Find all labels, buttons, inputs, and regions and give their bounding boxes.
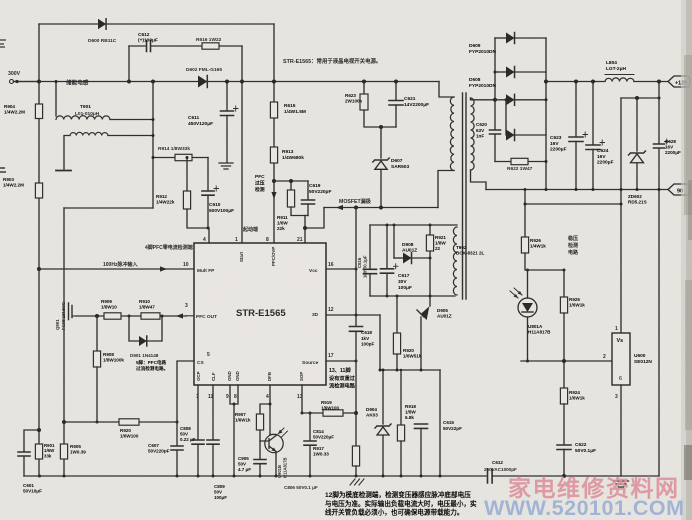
resistor R924 xyxy=(560,388,567,404)
junction x356/y413 xyxy=(354,411,358,415)
resistor R912 xyxy=(183,191,190,209)
junction Q901 source/y422 xyxy=(62,420,66,424)
diode D600 on top rail xyxy=(98,19,106,29)
wire x621 vertical to U600 xyxy=(620,98,622,333)
junction gate/R908 xyxy=(95,314,99,318)
wire C905 top stem xyxy=(259,441,261,459)
wire C616 top stem xyxy=(369,225,371,269)
wire C616 bottom stem xyxy=(369,274,371,296)
wire U901B collector link xyxy=(270,435,276,436)
junction R920b top xyxy=(396,295,399,298)
zener D904 AK03 xyxy=(375,424,391,428)
wire y157 R914 rail xyxy=(153,157,208,159)
junction y204/x525 xyxy=(524,203,527,206)
wire D607 top stem xyxy=(380,127,382,158)
junction OVP node xyxy=(272,179,276,183)
junction R925 top xyxy=(563,269,566,272)
resistor R914 1/8W33k xyxy=(175,154,192,160)
junction rail/pin7 xyxy=(197,475,200,478)
wire x356 vertical lower xyxy=(355,331,357,445)
left edge scan marks xyxy=(0,40,6,47)
junction GD/x659 xyxy=(658,188,661,191)
wire x64 to bottom rail xyxy=(63,422,65,476)
wire to D908 xyxy=(394,257,403,259)
wire pin13 drop xyxy=(301,385,303,413)
wire x440 drop to bottom rail xyxy=(439,370,441,476)
wire 100Hz line to pin10 xyxy=(39,268,194,270)
resistor R905 1W0.39 xyxy=(60,444,67,459)
capacitor C611 450V120uF xyxy=(221,111,234,116)
wire C610 top stem xyxy=(207,158,209,191)
wire T901 coil2 right to x153 xyxy=(108,135,153,137)
input junction dot xyxy=(15,80,18,83)
wire D608a anode stub xyxy=(495,99,506,101)
junction rail/R918 xyxy=(400,475,403,478)
capacitor C620 63V 1nF snubber xyxy=(490,130,501,134)
wire snubber left drop x129 xyxy=(128,46,130,82)
resistor R907 1/6W1k xyxy=(256,414,263,430)
junction R910 left xyxy=(128,315,131,318)
wire stub xyxy=(612,479,614,481)
wire R912 to IC pin4 xyxy=(187,209,209,243)
transformer T902 auxiliary winding xyxy=(453,227,457,295)
capacitor C610 500V100uF xyxy=(202,191,214,195)
wire C814 top stem xyxy=(309,413,311,441)
diode D908 AU01Z xyxy=(403,253,412,264)
wire T901 coil2 left drop xyxy=(64,136,70,170)
diode D905 AU01Z xyxy=(421,306,430,320)
junction x564/bottom rail xyxy=(562,474,566,478)
resistor R910 xyxy=(141,313,160,319)
output tag 90 xyxy=(668,184,690,195)
wire R912 top stem xyxy=(186,158,188,192)
wire top rail y24 xyxy=(39,23,274,25)
wire gnd pins to rail xyxy=(233,404,235,476)
wire left main vertical x39 xyxy=(38,24,40,430)
junction x153/y157 xyxy=(152,156,155,159)
wire D608b cathode stub xyxy=(515,134,547,136)
wire D908 anode stem xyxy=(393,225,395,258)
wire R918 bottom stem xyxy=(400,441,402,476)
resistor R909 xyxy=(104,313,121,319)
wire opto cathode stem xyxy=(527,317,529,361)
diode D609 FYP2010DN unit B xyxy=(506,67,515,78)
junction pin21/drain step xyxy=(303,226,307,230)
junction GD/R926 xyxy=(524,188,527,191)
junction D908/R921 xyxy=(429,257,432,260)
wire y413 R919 rail xyxy=(302,412,356,414)
diode D901 1N4148 xyxy=(139,336,147,346)
wire C607 bottom stem xyxy=(176,450,178,476)
wire x659 vertical upper xyxy=(658,82,660,144)
wire D609a cathode stub xyxy=(515,37,547,39)
junction C601 tap xyxy=(37,428,41,432)
wire x153 vertical xyxy=(152,82,154,209)
resistor R623 2W100k xyxy=(360,94,368,110)
junction C814 tap xyxy=(309,412,312,415)
wire pin12 to x380 xyxy=(326,314,380,316)
junction R623 rail xyxy=(362,80,366,84)
junction C621 rail xyxy=(394,80,398,84)
wire R908 top stem xyxy=(96,316,98,351)
junction C623 top xyxy=(574,80,578,84)
wire main 300V rail y82 xyxy=(14,81,440,83)
wire MOSFET drain horizontal y208 xyxy=(324,207,438,209)
junction rail/x177 xyxy=(176,475,179,478)
arrow 100Hz pointing right xyxy=(160,266,167,271)
wire R921 vertical xyxy=(429,225,431,296)
wire R907 top link xyxy=(260,404,270,414)
wire snubber top left segment xyxy=(129,45,145,47)
capacitor C617 30V100uF xyxy=(381,269,394,273)
capacitor C601 50V10uF xyxy=(18,452,30,456)
wire D904 top stem xyxy=(382,370,384,424)
wire +125 rail left of L804 xyxy=(546,81,605,83)
wire +125 rail right of L804 xyxy=(634,81,668,83)
junction opto anode xyxy=(526,269,529,272)
resistor R616 1W22 xyxy=(202,43,219,49)
junction rail/C905 xyxy=(259,475,262,478)
junction x274 rail xyxy=(272,80,276,84)
junction x242 rail xyxy=(240,80,244,84)
inductor L804 label underline xyxy=(605,74,634,76)
diode D602 FML-G165 on rail xyxy=(198,76,207,88)
junction x356/bottom rail xyxy=(355,475,358,478)
resistor R901 1/6W33k xyxy=(35,444,42,459)
junction y370/D904 xyxy=(382,369,385,372)
wire R926 top stem xyxy=(524,190,526,238)
junction opto/y361 xyxy=(526,360,529,363)
zener ZD602 RD5.21S xyxy=(629,151,646,155)
resistor R904 xyxy=(35,104,42,119)
junction y370/R918 xyxy=(400,369,402,371)
wire pin17 Source to x356 xyxy=(326,360,356,362)
wire pin21 vertical xyxy=(304,216,306,244)
wire rail step to primary top xyxy=(439,82,454,98)
resistor R622 1W47 xyxy=(511,158,528,164)
wire ZD602 top stem xyxy=(636,98,638,151)
junction cathode bus D608a xyxy=(545,98,548,101)
wire aux top y225 xyxy=(370,224,457,226)
wire D908 cathode to R921 line xyxy=(412,257,431,259)
junction R912 top xyxy=(186,156,189,159)
wire D607 bottom stem xyxy=(380,170,382,208)
wire aux bottom y296 xyxy=(370,295,455,297)
junction x430/y296 xyxy=(429,295,432,298)
output tag +125 xyxy=(668,76,690,87)
wire T901 coil1 left drop xyxy=(55,82,57,117)
junction x659 top xyxy=(657,80,661,84)
wire R911 top stem xyxy=(290,181,292,190)
junction gnd pins xyxy=(233,403,236,406)
op-amp U1 IC STR-E1565 body xyxy=(194,243,326,385)
resistor R920a 1/6W100 xyxy=(119,419,139,425)
junction rail/pin11 xyxy=(212,475,215,478)
wire snubber bottom xyxy=(495,161,546,163)
wire C619 top stem xyxy=(307,181,309,199)
wire y370 rail xyxy=(380,369,440,371)
wire C610 bottom stem xyxy=(207,196,209,229)
wire opto anode stem xyxy=(527,270,529,298)
junction y370/D905 xyxy=(420,369,423,372)
junction y204/x621 xyxy=(620,203,623,206)
junction x153 rail xyxy=(151,80,155,84)
wire snubber top right segment xyxy=(151,45,242,47)
wire C621 bottom stem xyxy=(395,106,397,128)
junction 100Hz tap xyxy=(37,267,41,271)
arrow PFC OUT pointing left xyxy=(176,313,183,318)
junction pin16/x356 xyxy=(355,268,358,271)
wire C617 bottom stem xyxy=(386,273,388,296)
junction R911 top xyxy=(289,179,293,183)
junction coil2 right xyxy=(152,134,155,137)
junction coil1 right xyxy=(152,118,155,121)
wire pin3 stub xyxy=(186,315,194,317)
wire y208 from x153 to Q901 drain xyxy=(64,207,153,209)
wire C615 bottom stem xyxy=(420,428,422,476)
wire D609a anode stub xyxy=(495,37,506,39)
resistor R919 1/6W100 xyxy=(323,410,343,416)
wire x39 lower to rail xyxy=(38,430,40,476)
ground below U600 xyxy=(614,481,629,487)
junction C617 top xyxy=(386,224,389,227)
capacitor C612 series plates xyxy=(147,41,151,52)
wire rectifier anode bus x495 xyxy=(494,38,496,129)
junction rail/gnd pins xyxy=(233,475,236,478)
junction rail/D904 xyxy=(382,475,385,478)
diode D609 FYP2010DN unit A xyxy=(506,33,515,44)
wire C624 bottom stem xyxy=(592,150,594,190)
transformer T902 primary winding xyxy=(450,97,454,171)
junction D901 right xyxy=(161,315,164,318)
junction rail/x64 xyxy=(63,475,66,478)
regulator U600 SE012N xyxy=(612,333,630,385)
wire drain step xyxy=(305,208,324,229)
wire pin5 CS to C607 xyxy=(177,361,194,445)
wire R917 to bottom rail xyxy=(355,466,357,476)
junction cathode bus snubber xyxy=(545,160,548,163)
capacitor C607 50V220pF xyxy=(171,446,183,450)
wire y422 rail xyxy=(64,421,177,423)
wire C905 bottom stem xyxy=(259,464,261,476)
wire Q901 source vertical xyxy=(63,322,65,422)
junction pin13/y413 xyxy=(301,412,304,415)
wire C611 bottom stem xyxy=(226,116,228,163)
junction C610/pin4 xyxy=(207,227,210,230)
transistor U901B opto H11A817B xyxy=(265,434,283,452)
wire R925 to R924 xyxy=(563,313,565,388)
wire R918 top stem xyxy=(400,370,402,425)
junction rail/x39 xyxy=(38,475,41,478)
wire R920b top stem xyxy=(396,296,398,333)
junction x564/y361 xyxy=(562,359,566,363)
junction anode bus D608 xyxy=(494,71,497,74)
wire R920b bottom stem xyxy=(396,354,398,370)
capacitor C623 16V2200uF xyxy=(569,137,583,142)
arrow PFC OVP down xyxy=(271,192,276,199)
wire bottom rail right of C612 xyxy=(492,475,659,477)
junction y422/x177 xyxy=(176,421,179,424)
diode D608 FYP2010DN unit B xyxy=(506,130,515,141)
junction x659/y98 xyxy=(658,97,661,100)
inductor T901 winding 1 xyxy=(56,116,110,120)
wire x659 vertical lower xyxy=(658,149,660,477)
terminal bar coil2 xyxy=(56,170,71,172)
wire GD return rail y189 xyxy=(486,189,668,191)
junction D608 anode bus xyxy=(505,98,508,101)
capacitor C622 50V0.1uF xyxy=(557,445,571,450)
wire pin7 cap to rail xyxy=(197,444,199,476)
inductor T901 winding 2 xyxy=(70,132,108,135)
junction y370/R920b xyxy=(396,369,399,372)
ground slashes below R917 xyxy=(350,479,364,485)
wire C814 bottom stem xyxy=(309,445,311,476)
junction GD/C624 xyxy=(592,188,595,191)
wire C621 top stem xyxy=(395,82,397,101)
capacitor C809 100uF xyxy=(207,440,219,444)
wire pin16 Vcc to x356 xyxy=(326,268,356,270)
junction ZD602 top xyxy=(635,96,639,100)
transformer T902 secondary winding xyxy=(471,98,475,170)
wire gate line y316 xyxy=(76,315,186,317)
junction y370/x380 xyxy=(379,369,382,372)
wire pin7 drop xyxy=(197,385,199,440)
wire U600 pin3 to bottom rail xyxy=(620,385,622,476)
capacitor C905 50V4.7uF xyxy=(254,460,266,464)
resistor R913 xyxy=(270,147,277,163)
transistor Q901 FGPF18N50C xyxy=(64,302,72,322)
junction rail/C814 xyxy=(309,475,312,478)
wire ZD602 bottom stem xyxy=(636,163,638,190)
wire pin4 DFB drop to U901B xyxy=(269,385,271,435)
svg-text:WWW.520101.COM: WWW.520101.COM xyxy=(484,496,685,520)
wire C611 top stem xyxy=(226,82,228,111)
junction x39/main rail xyxy=(37,80,41,84)
wire D609b anode stub xyxy=(495,71,506,73)
capacitor C624 16V2200uF xyxy=(586,145,600,150)
junction pin4/R907 xyxy=(269,403,272,406)
wire D904 bottom stem xyxy=(382,436,384,476)
wire R623 top stem xyxy=(363,82,365,95)
resistor R903 xyxy=(35,183,42,198)
resistor R911 xyxy=(287,190,294,207)
wire OVP horizontal y181 xyxy=(274,180,308,182)
wire C617 top stem xyxy=(386,225,388,268)
wire drain up to primary bottom xyxy=(438,171,454,208)
junction rail/C615 xyxy=(420,475,423,478)
resistor R921 1/8W22 xyxy=(426,235,433,251)
wire U901B emitter to rail xyxy=(275,452,277,477)
wire pin9 pin8 gnd merge xyxy=(230,385,238,404)
resistor R917 1W0.33 xyxy=(352,446,359,466)
junction pin17/x356 xyxy=(355,360,358,363)
wire rectifier cathode bus x546 xyxy=(545,38,547,190)
wire clamp bottom xyxy=(364,110,396,127)
wire R911 bottom to node xyxy=(291,207,308,216)
resistor R918 xyxy=(397,425,404,441)
resistor R920 1/6W51k xyxy=(393,333,400,354)
junction clamp to D607 xyxy=(379,125,383,129)
capacitor C808 0.22uF xyxy=(192,440,204,444)
wire C619 bottom stem xyxy=(307,204,309,216)
wire bottom rail left of C612 xyxy=(24,475,486,477)
resistor R925 xyxy=(560,297,567,313)
arrow drain pointing left xyxy=(336,205,343,210)
capacitor C619 50V220pF xyxy=(302,200,315,204)
wire D905 to y370 xyxy=(420,317,422,370)
wire C622 bottom stem xyxy=(563,450,565,477)
junction cathode bus / +125 rail xyxy=(544,80,548,84)
wire C623 bottom stem xyxy=(575,142,577,190)
scan noise overlay xyxy=(0,0,1,1)
wire D901 bypass loop xyxy=(129,316,162,341)
capacitor C612 250VAC1000pF xyxy=(488,469,493,483)
junction D908 feed xyxy=(393,224,396,227)
junction snubber left on rail xyxy=(127,80,131,84)
input terminal circle xyxy=(10,80,14,84)
wire D608b anode drop xyxy=(505,100,507,135)
wire C601 top xyxy=(24,430,39,451)
diode D608 FYP2010DN unit A xyxy=(506,94,515,105)
capacitor C615 50V22pF xyxy=(415,424,428,428)
wire secondary top to rectifiers xyxy=(471,98,496,100)
junction pin12/x356 xyxy=(355,314,358,317)
junction C624 top xyxy=(591,80,595,84)
wire x356 vertical upper xyxy=(355,208,357,327)
junction drain/x356 xyxy=(354,206,358,210)
junction GD/C623 xyxy=(575,188,578,191)
transformer T902 core xyxy=(463,93,467,299)
wire x274 vertical top-rail to IC pin8 xyxy=(273,24,275,243)
wire D608a cathode stub xyxy=(515,99,547,101)
junction T901 left on rail xyxy=(55,80,58,83)
junction rail/x440 xyxy=(439,475,442,478)
wire y204 sense rail xyxy=(525,203,621,205)
capacitor C628 16V2200uF xyxy=(654,144,665,148)
resistor R926 xyxy=(521,237,528,253)
wire R924 to C622 xyxy=(563,404,565,445)
junction rail/U901B xyxy=(275,475,278,478)
junction GD/ZD602 xyxy=(636,188,639,191)
wire D609b cathode stub xyxy=(515,71,547,73)
capacitor C621 14V2200uF xyxy=(389,101,403,106)
resistor R908 xyxy=(93,351,100,367)
wire D905 top stem xyxy=(429,296,431,306)
junction R921 top xyxy=(429,224,432,227)
junction drain/D607 xyxy=(379,206,383,210)
junction C611 rail xyxy=(225,80,229,84)
junction GD/x621 xyxy=(620,188,623,191)
capacitor C618 1kV100pF xyxy=(350,327,363,332)
wire y361 to U600 pin2 xyxy=(521,360,613,362)
wire R908 bottom stem xyxy=(96,367,98,422)
wire sub rail y98 xyxy=(621,97,659,99)
wire input to main vertical xyxy=(14,81,40,83)
wire x242 snubber right drop / IC pin1 start line xyxy=(241,46,243,243)
wire Q901 drain vertical xyxy=(63,208,65,302)
wire secondary bottom step to GD rail xyxy=(471,170,487,190)
junction GD/cathode bus xyxy=(545,188,548,191)
ground under C611 xyxy=(219,163,233,169)
junction C617 bottom xyxy=(386,295,389,298)
wire opto top rail y270 xyxy=(525,253,564,270)
wire x380 pin12 drop xyxy=(379,315,381,370)
diode D607 SAR503 zener xyxy=(373,158,389,162)
wire T901 coil1 right to x153 xyxy=(110,119,153,121)
wire C623 top stem xyxy=(575,82,577,137)
wire R925 top stem xyxy=(563,270,565,297)
wire C601 bottom stem xyxy=(23,456,25,476)
